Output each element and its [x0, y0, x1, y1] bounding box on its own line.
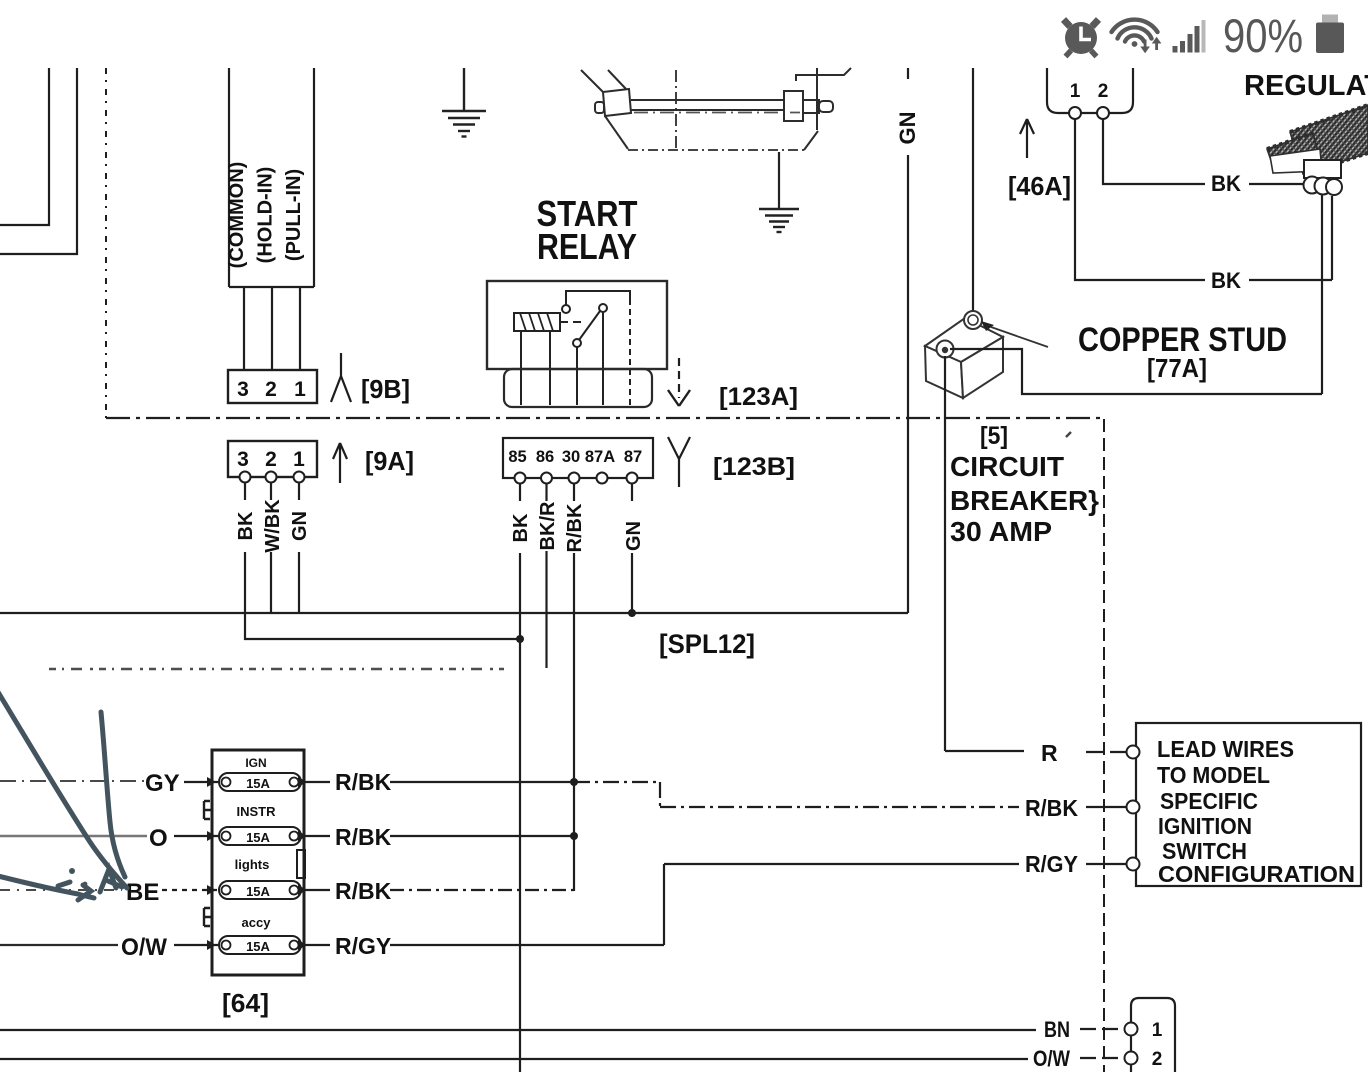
- svg-text:2: 2: [265, 448, 277, 471]
- svg-text:3: 3: [237, 378, 249, 401]
- relay connector base: [504, 369, 652, 407]
- wires into connector 9B: [244, 287, 300, 370]
- fuse block left mounting tab upper: [204, 801, 212, 819]
- svg-text:90%: 90%: [1223, 9, 1303, 62]
- regulator terminal rings: [1304, 177, 1343, 196]
- node SPL12 junction: [516, 635, 524, 643]
- relay coil pin wires: [521, 331, 550, 405]
- fuse block 64: [212, 750, 304, 975]
- svg-text:[SPL12]: [SPL12]: [659, 629, 755, 659]
- svg-text:(HOLD-IN): (HOLD-IN): [255, 167, 277, 264]
- connector symbol at 9B: [331, 353, 351, 402]
- svg-text:BK: BK: [1211, 171, 1241, 196]
- svg-text:TO MODEL: TO MODEL: [1157, 762, 1270, 788]
- wire copper stud to regulator bus: [950, 349, 1322, 394]
- copper stud body: [925, 318, 1003, 398]
- starter solenoid plunger drawing: [581, 68, 851, 152]
- svg-text:SPECIFIC: SPECIFIC: [1160, 788, 1258, 814]
- bottom connector: [1131, 998, 1175, 1072]
- wire 46A pin2 BK to regulator: [1103, 119, 1205, 184]
- solenoid terminal box (COMMON / HOLD-IN / PULL-IN): [229, 68, 314, 287]
- svg-text:[9B]: [9B]: [361, 374, 410, 404]
- status bar alarm clock icon: [1064, 20, 1099, 57]
- svg-text:(COMMON): (COMMON): [226, 162, 248, 269]
- wire BK/R stub: [545, 551, 547, 668]
- svg-text:BREAKER}: BREAKER}: [950, 485, 1099, 516]
- svg-text:[123A]: [123A]: [719, 383, 798, 411]
- wire R/GY fuse4 output: [302, 944, 330, 946]
- relay internal dashed wire pin 87: [629, 299, 631, 405]
- connector 46A: [1047, 68, 1133, 113]
- svg-text:IGN: IGN: [245, 756, 266, 770]
- fuse row terminal marks: [207, 777, 216, 787]
- svg-text:15A: 15A: [246, 776, 270, 791]
- svg-text:RELAY: RELAY: [537, 226, 637, 267]
- pin circles 123B: [515, 473, 638, 484]
- arrow symbol at 123A: [678, 358, 680, 398]
- pin circles bottom connector: [1125, 1023, 1138, 1036]
- wire O/W bottom bus: [0, 1058, 1028, 1060]
- wire copper stud down to circuit breaker feed: [944, 356, 946, 751]
- relay contact circles and arm: [562, 305, 570, 313]
- svg-text:CONFIGURATION: CONFIGURATION: [1158, 861, 1355, 887]
- svg-text:R/GY: R/GY: [1025, 851, 1078, 877]
- svg-text:15A: 15A: [246, 939, 270, 954]
- svg-text:[77A]: [77A]: [1147, 353, 1207, 383]
- node splice junction on GN bus: [628, 609, 636, 617]
- wire stubs below 9A: [245, 482, 299, 500]
- relay mechanical link dashes: [560, 321, 586, 323]
- svg-text:REGULATOR: REGULATOR: [1244, 70, 1368, 102]
- svg-text:BK: BK: [235, 511, 257, 540]
- wire BN bottom bus: [0, 1029, 1036, 1031]
- svg-text:accy: accy: [242, 915, 272, 930]
- svg-text:2: 2: [1098, 81, 1109, 102]
- svg-text:R/BK: R/BK: [335, 878, 392, 904]
- wire dashed breaker boundary vertical: [1103, 419, 1105, 1072]
- status bar battery icon: [1322, 15, 1338, 24]
- svg-text:W/BK: W/BK: [262, 499, 284, 553]
- arrow symbol at 9A: [333, 443, 347, 483]
- svg-text:BN: BN: [1044, 1017, 1070, 1042]
- svg-text:15A: 15A: [246, 830, 270, 845]
- arrow symbol at 46A: [1020, 119, 1034, 158]
- tiny stray mark: [1066, 432, 1071, 437]
- connector 123B: [503, 438, 653, 478]
- fuse block right tab: [297, 850, 305, 878]
- ground symbol under solenoid: [759, 209, 799, 232]
- pin circles on switch box: [1127, 746, 1140, 871]
- wire dashed separator line: [49, 668, 504, 670]
- svg-text:O/W: O/W: [121, 934, 167, 961]
- wire R/BK fuse1 output: [302, 781, 330, 783]
- wire BE into fuse block: [0, 889, 122, 891]
- svg-text:86: 86: [536, 448, 554, 466]
- wire R/BK vertical to fuse feeds: [573, 553, 575, 891]
- connector symbol at 123B: [668, 437, 690, 487]
- svg-text:30 AMP: 30 AMP: [950, 516, 1052, 547]
- wire top-left corner 2: [0, 68, 77, 254]
- svg-text:BK: BK: [1211, 268, 1241, 293]
- svg-text:87A: 87A: [585, 448, 615, 466]
- svg-text:BE: BE: [126, 879, 159, 906]
- wire 46A pin1 BK to regulator: [1075, 119, 1205, 280]
- svg-text:IGNITION: IGNITION: [1158, 813, 1252, 839]
- svg-text:BK/R: BK/R: [537, 501, 559, 550]
- svg-text:2: 2: [265, 378, 277, 401]
- wire BK main vertical: [519, 553, 521, 1072]
- wire GN riser with label: [907, 68, 909, 79]
- ignition switch lead wires box: [1136, 723, 1361, 886]
- svg-text:[123B]: [123B]: [713, 453, 795, 481]
- wire regulator middle terminal down to stud bus: [1321, 190, 1323, 394]
- pen annotation strokes: [0, 692, 127, 900]
- wire main dash-dot horizontal frame line: [106, 417, 1104, 419]
- status bar wifi icon with up/down arrows: [1112, 20, 1158, 42]
- wire O into fuse block: [0, 835, 147, 837]
- relay coil: [514, 313, 560, 331]
- ground symbol left: [442, 68, 486, 137]
- wire R/BK fuse3 output: [302, 889, 330, 891]
- svg-text:lights: lights: [235, 857, 270, 872]
- svg-text:[5]: [5]: [980, 422, 1008, 450]
- relay internal top wire: [566, 291, 630, 305]
- svg-text:INSTR: INSTR: [237, 804, 277, 819]
- wire O/W into fuse block: [0, 944, 118, 946]
- wire battery feed vertical to copper stud: [972, 68, 974, 316]
- copper stud top terminal: [964, 311, 982, 329]
- fuse block left mounting tab lower: [204, 908, 212, 926]
- svg-text:2: 2: [1152, 1049, 1163, 1070]
- svg-text:30: 30: [562, 448, 580, 466]
- svg-text:[64]: [64]: [222, 988, 269, 1018]
- svg-text:O: O: [149, 825, 168, 852]
- svg-text:R/GY: R/GY: [335, 933, 391, 959]
- wire R from breaker to switch box: [945, 750, 1024, 752]
- wire GN from 9A to GN bus: [298, 552, 300, 613]
- svg-text:15A: 15A: [246, 884, 270, 899]
- svg-text:GY: GY: [145, 770, 180, 797]
- wire W/BK from 9A to GN bus: [270, 552, 272, 613]
- wire GY into fuse block: [0, 780, 144, 782]
- wire dash-dot vertical frame line: [105, 68, 107, 418]
- svg-text:LEAD WIRES: LEAD WIRES: [1157, 736, 1294, 762]
- svg-text:[46A]: [46A]: [1008, 171, 1071, 201]
- svg-text:O/W: O/W: [1033, 1046, 1070, 1071]
- svg-text:[9A]: [9A]: [365, 446, 414, 476]
- copper stud left terminal: [937, 341, 954, 358]
- connector 9B: [228, 370, 317, 403]
- regulator connector block: [1304, 160, 1341, 178]
- svg-text:(PULL-IN): (PULL-IN): [283, 169, 305, 261]
- svg-text:1: 1: [1070, 81, 1081, 102]
- pin circles 46A: [1069, 107, 1081, 119]
- svg-text:R/BK: R/BK: [335, 824, 392, 850]
- svg-text:R: R: [1041, 740, 1058, 766]
- status bar signal bars: [1173, 20, 1206, 53]
- svg-text:R/BK: R/BK: [335, 769, 392, 795]
- svg-text:1: 1: [1152, 1020, 1163, 1041]
- svg-text:1: 1: [293, 448, 305, 471]
- wire BK from 9A down to splice: [245, 552, 520, 639]
- relay U1 outer box: [487, 281, 667, 369]
- relay contact pin wires: [577, 312, 603, 405]
- svg-text:85: 85: [508, 448, 526, 466]
- wire top-left corner 1: [0, 68, 49, 225]
- wire solenoid case to ground: [778, 152, 780, 208]
- wire GN from pin87 to GN bus: [631, 553, 633, 613]
- svg-text:GN: GN: [895, 112, 920, 145]
- pin circles 9A: [240, 472, 305, 483]
- svg-text:CIRCUIT: CIRCUIT: [950, 451, 1064, 482]
- svg-text:87: 87: [624, 448, 642, 466]
- svg-text:3: 3: [237, 448, 249, 471]
- svg-text:1: 1: [294, 378, 306, 401]
- regulator finned body: [1267, 105, 1368, 174]
- svg-text:R/BK: R/BK: [1025, 795, 1078, 821]
- wire GN bus horizontal: [0, 612, 908, 614]
- svg-text:GN: GN: [289, 511, 311, 541]
- connector 9A: [228, 441, 317, 477]
- pointer to COPPER STUD label: [981, 321, 994, 331]
- svg-text:R/BK: R/BK: [564, 503, 586, 552]
- svg-text:GN: GN: [623, 521, 645, 551]
- svg-text:BK: BK: [510, 513, 532, 542]
- wire stubs below 123B: [520, 483, 632, 501]
- wire R/BK fuse2 output: [302, 835, 330, 837]
